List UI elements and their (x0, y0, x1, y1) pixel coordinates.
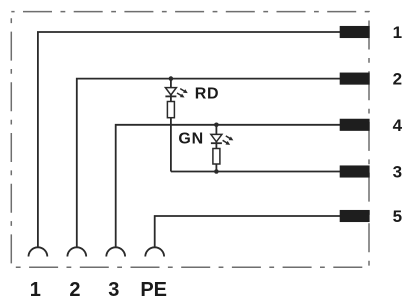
socket contact pin 2 (67, 247, 86, 256)
socket contact pin 1 (29, 247, 48, 256)
svg-text:2: 2 (393, 70, 402, 89)
enclosure boundary (11, 12, 369, 268)
svg-text:GN: GN (178, 131, 204, 148)
wire pin 1 to terminal 1 (38, 32, 341, 247)
junction node on wire 2 (169, 76, 174, 81)
wire LED branch node to terminal 3 (171, 171, 341, 173)
wire pin 3 to terminal 4 (116, 125, 341, 247)
svg-text:RD: RD (195, 85, 220, 102)
LED GN (211, 134, 235, 147)
resistor in GN branch (213, 149, 220, 165)
svg-text:3: 3 (108, 279, 119, 301)
svg-text:2: 2 (69, 279, 80, 301)
junction node on wire to terminal 3 (214, 169, 219, 174)
svg-text:1: 1 (30, 279, 41, 301)
junction node on wire 3 (214, 123, 219, 128)
wire pin PE to terminal 5 (155, 216, 341, 247)
svg-text:PE: PE (140, 279, 167, 301)
svg-text:4: 4 (393, 116, 403, 135)
wire RD LED branch (170, 79, 172, 172)
socket contact pin 3 (106, 247, 125, 256)
terminal 3 (340, 165, 370, 177)
svg-text:1: 1 (393, 23, 402, 42)
terminal 1 (340, 26, 370, 38)
wire pin 2 to terminal 2 (77, 79, 341, 248)
socket contact pin PE (145, 247, 164, 256)
svg-text:3: 3 (393, 163, 402, 182)
svg-text:5: 5 (393, 207, 402, 226)
resistor in RD branch (167, 102, 174, 118)
terminal 5 (340, 210, 370, 222)
terminal 2 (340, 73, 370, 85)
terminal 4 (340, 119, 370, 131)
wire GN LED branch (215, 125, 217, 172)
LED RD (165, 87, 188, 100)
